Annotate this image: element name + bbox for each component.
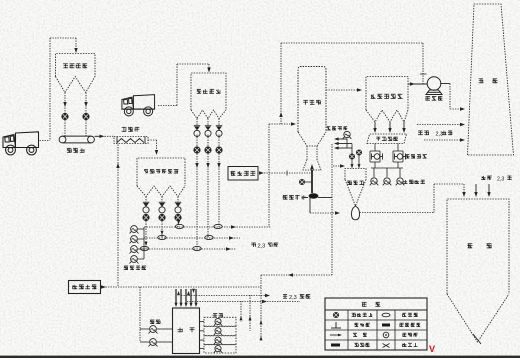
feeder on line C right: [193, 246, 201, 250]
wire vent line vertical: [331, 144, 333, 275]
wire carbon line 2 down: [207, 154, 209, 239]
tick on flue gas line: [286, 171, 288, 176]
legend column line: [347, 310, 349, 350]
lime silo double hopper: [56, 77, 96, 93]
wire conveyor to slaker: [95, 135, 101, 137]
water pump L2: [149, 339, 158, 347]
activated carbon silo body: [191, 73, 226, 110]
wire hydrated outlet 1 upper: [145, 197, 147, 203]
wire reagent riser: [268, 124, 270, 227]
wire drop into lime silo: [75, 38, 77, 51]
wire hydrated outlet 3 down: [177, 221, 179, 227]
wire reactor bottom tube: [311, 170, 313, 193]
wire carbon outlet 1 mid: [196, 135, 198, 147]
ash storage bin: [447, 199, 509, 294]
wire drops into ash storage: [475, 184, 477, 194]
wire transport line C: [144, 248, 236, 250]
wire reagent feed to reactor: [269, 123, 293, 125]
arrow up into venturi: [310, 164, 314, 170]
wire bypass riser: [280, 43, 282, 124]
wire import line lower into chimney: [424, 139, 461, 141]
label to line 2-3 water: [283, 294, 287, 298]
label to line 2-3 upper: [251, 243, 256, 247]
return feeder device: [367, 134, 407, 144]
legend text r3c2: [353, 333, 357, 337]
feeder on line A left: [175, 224, 183, 228]
water pump R1: [214, 318, 222, 325]
wire discharge to small silo feeder: [310, 212, 336, 214]
valve hydrated 1: [142, 214, 149, 221]
fluidizing fan row 2: [383, 178, 392, 186]
wire heater loop right: [397, 144, 399, 152]
legend sym solid: [331, 344, 340, 347]
wire plant water main: [101, 286, 262, 288]
wire vent drop at water tank: [260, 275, 262, 318]
wire feeder to riser: [318, 197, 332, 199]
fluidizing fan F1: [130, 226, 139, 234]
valve lime left: [61, 113, 68, 120]
label fluidizing fans: [124, 266, 128, 270]
water tank: [173, 308, 200, 354]
water pump R3: [214, 337, 222, 344]
feeder valve hydrated 3: [175, 201, 182, 203]
wire carbon riser: [176, 64, 178, 106]
legend text r4c2: [355, 343, 359, 347]
ash storage cone: [447, 294, 509, 342]
silo feed from left: [333, 165, 342, 167]
valve lime right: [82, 113, 89, 120]
feeder valve hydrated 2: [159, 201, 166, 203]
wire riser R2: [249, 295, 251, 331]
wire water to slaker riser: [117, 145, 119, 288]
wire import line upper into chimney: [417, 124, 461, 126]
label compressed air: [283, 195, 288, 199]
wire carbon outlet 1 upper: [196, 119, 198, 127]
bag filter body: [366, 77, 408, 111]
valve carbon 3: [215, 146, 222, 153]
feeder valve carbon 2: [205, 125, 212, 127]
legend sym black bar: [382, 324, 390, 327]
fluidizing fan F3: [130, 246, 139, 254]
svg-text:2,3: 2,3: [258, 244, 266, 250]
wire hydrated outlet 3 upper: [177, 197, 179, 203]
label activated carbon silo: [197, 89, 202, 94]
wire flue gas to reactor: [259, 171, 264, 174]
valve small silo inlet 2: [356, 150, 362, 156]
wire lime riser vertical: [49, 38, 51, 141]
wire carbon outlet 3 upper: [218, 119, 220, 127]
water pump R2: [214, 328, 222, 335]
hydrated lime silo body: [137, 158, 185, 186]
valve hydrated 2: [158, 214, 165, 221]
wire lime outlet left: [64, 93, 66, 137]
legend text r1c4: [402, 313, 406, 317]
tick on bypass drop: [420, 73, 427, 75]
wire heater loop left: [374, 144, 376, 152]
wire transport line B: [144, 237, 240, 239]
feeder valve carbon 3: [216, 125, 223, 127]
wire filter hopper drops: [374, 122, 376, 128]
label slaker: [122, 127, 127, 132]
legend row line: [325, 329, 427, 331]
label reactor: [303, 100, 308, 105]
wire slaker outlet: [148, 139, 157, 141]
wire ash transport right: [360, 212, 435, 214]
reactor venturi bell: [303, 160, 321, 171]
slaker digester body: [114, 137, 148, 144]
arrow lime outlet left: [63, 102, 66, 107]
legend sym bowtie: [383, 344, 390, 348]
lime silo bin body: [56, 54, 96, 77]
svg-text:2,3: 2,3: [497, 177, 504, 183]
feeder on line B right: [205, 235, 213, 239]
water pump R4: [214, 346, 222, 353]
wire tank inlet drops: [175, 289, 177, 305]
water pump L1: [149, 326, 158, 334]
bag filter triple hopper: [366, 110, 408, 122]
legend header: [325, 309, 427, 311]
scan bottom border: [0, 356, 520, 358]
truck V1 lime delivery: [3, 132, 40, 155]
wire reactor outlet to bag filter: [326, 89, 358, 91]
wire air jets into cone: [338, 138, 347, 140]
wire pump L1 lines: [140, 328, 149, 330]
electric heater left: [372, 154, 383, 160]
fluidizing fan row 3: [396, 178, 405, 186]
feeder on line A right: [214, 224, 222, 228]
wire transport line A: [144, 226, 271, 228]
legend sym oval: [382, 313, 390, 317]
legend row line: [325, 319, 427, 321]
label fluidizing fan row: [403, 180, 407, 184]
feeder on line C left: [140, 246, 148, 250]
legend column line: [376, 310, 378, 350]
label feeder: [67, 148, 72, 153]
legend sym gate: [331, 322, 341, 328]
wire export line low: [187, 301, 300, 303]
legend text r2c4: [400, 323, 404, 327]
legend row line: [325, 339, 427, 341]
wire hydrated outlet 1 down: [145, 221, 147, 249]
wire carbon outlet 3 mid: [218, 135, 220, 147]
legend text r3c4: [402, 333, 406, 337]
wire lime outlet right: [85, 93, 87, 137]
reactor venturi neck: [306, 146, 308, 160]
arrow lime outlet right: [84, 102, 87, 107]
wire fan drop: [346, 139, 348, 149]
boiler flue gas box: [228, 167, 258, 181]
valve reactor bottom: [299, 179, 305, 185]
wire truck V2 to riser: [158, 105, 177, 107]
wire carbon top horizontal: [177, 63, 209, 65]
reactor vessel body: [298, 67, 326, 133]
wire filter outlet: [408, 83, 427, 85]
label bag filter: [371, 94, 376, 99]
truck V2 carbon delivery: [121, 95, 155, 116]
activated carbon silo triple hopper: [191, 110, 226, 119]
wire pump L2 lines: [140, 341, 149, 343]
electric heater right: [395, 154, 406, 160]
plant water box: [69, 281, 101, 294]
label induced draft fan: [425, 96, 430, 100]
wire carbon outlet 2 mid: [207, 135, 209, 147]
wire compressed air line: [304, 197, 308, 199]
wire ash transport riser: [433, 184, 435, 213]
wire fan to chimney: [441, 83, 450, 85]
wire silo inlet drops: [351, 160, 353, 167]
wire branch to left pumps: [139, 287, 141, 342]
wire discharge down: [309, 198, 311, 214]
induced draft fan: [426, 77, 442, 95]
wire hydrated outlet 2 down: [161, 221, 163, 238]
legend text r1c2: [352, 313, 356, 317]
fluidizing fan F2: [130, 236, 139, 244]
label ash storage: [467, 244, 472, 249]
legend column line: [394, 310, 396, 350]
wire carbon line 1 down: [196, 154, 198, 250]
wire ash transport top: [434, 183, 464, 185]
label water pumps left: [150, 320, 155, 324]
label electric heater: [405, 155, 409, 159]
wire vent line to water area: [261, 274, 332, 276]
small ash silo body: [345, 169, 366, 180]
feeder under reactor: [309, 194, 318, 199]
fluidizing fan F4: [130, 256, 139, 264]
wire hydrated outlet 2 upper: [161, 197, 163, 203]
wire fan bus: [138, 228, 144, 230]
svg-text:2,3: 2,3: [289, 295, 297, 301]
label small ash silo: [347, 181, 352, 185]
small ash silo cone: [345, 180, 366, 207]
chimney: [468, 4, 514, 155]
label chimney: [479, 79, 484, 84]
legend sym valve: [333, 312, 339, 318]
wire carbon line 3 down: [218, 154, 220, 228]
valve small silo inlet 1: [349, 154, 355, 160]
feeder on line B left: [158, 235, 166, 239]
wire lime riser top horizontal: [50, 37, 76, 39]
feeder valve hydrated 1: [143, 201, 150, 203]
hydrated lime silo triple hopper: [137, 186, 185, 197]
label return feeder: [376, 137, 380, 141]
label plant water: [72, 285, 77, 290]
valve hydrated 3: [174, 214, 181, 221]
label boiler flue gas: [231, 171, 236, 176]
belt feeder conveyor: [59, 136, 94, 143]
valve carbon 1: [193, 146, 200, 153]
feeder valve carbon 1: [194, 125, 201, 127]
ash cone tail: [473, 334, 481, 344]
wire heater manifold: [371, 167, 403, 169]
legend table frame: [325, 298, 427, 350]
wire pump R bypass loops: [204, 317, 236, 326]
label from line 2-3 at ash storage: [481, 176, 486, 180]
rotary flask under small silo: [352, 206, 360, 220]
wire ash drop into storage: [463, 184, 465, 194]
svg-text:V: V: [429, 344, 435, 354]
legend text r2c2: [354, 323, 358, 327]
label reactor fluidizing fan: [327, 127, 331, 131]
valve carbon 2: [204, 146, 211, 153]
wire riser R3: [260, 318, 262, 340]
label from line 2-3 upper: [418, 131, 423, 135]
label hydrated lime silo: [144, 169, 148, 173]
wire carbon outlet 2 upper: [207, 119, 209, 127]
label lime silo: [63, 64, 68, 68]
fluidizing fan row 1: [370, 178, 379, 186]
wire riser R1: [240, 301, 242, 322]
wire export line mid: [181, 295, 266, 297]
wire tank to right pumps: [200, 321, 205, 323]
label water tank: [178, 328, 183, 333]
reactor fluidizing fan: [343, 131, 352, 139]
reactor cone: [298, 132, 326, 146]
wire bypass top horizontal: [281, 42, 423, 44]
wire truck V1 to riser: [40, 140, 51, 142]
label water pumps right: [213, 313, 218, 317]
legend sym arrow: [330, 334, 340, 336]
wire bypass down to fan: [422, 43, 424, 84]
wire drop into carbon silo: [208, 64, 210, 70]
legend text r4c4: [402, 343, 406, 347]
legend sym circle dot: [383, 332, 389, 338]
